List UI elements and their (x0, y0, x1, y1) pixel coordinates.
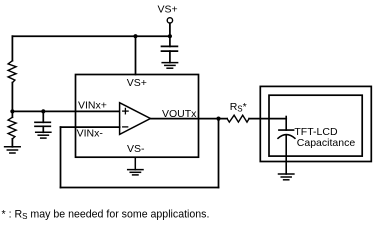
ground under C2 (162, 63, 177, 69)
junction cap tap (41, 109, 45, 113)
op-amp U1 triangle (120, 103, 151, 135)
resistor R1 (8, 61, 16, 83)
resistor R2 (8, 117, 16, 139)
wire terminal to top rail (169, 23, 171, 36)
ground under C1 (36, 132, 51, 138)
wire VINx- input (61, 126, 120, 128)
junction output node (216, 117, 220, 121)
junction VS+ pin tap (133, 34, 137, 38)
TFT-LCD outer box (260, 86, 371, 161)
capacitor C2 (VS+ decoupling) (162, 36, 178, 62)
wire top horizontal (12, 35, 170, 37)
junction terminal node (168, 34, 172, 38)
wire left rail lower (11, 83, 13, 118)
wire VS+ supply drop (135, 36, 137, 74)
ground VS- (128, 157, 143, 175)
wire feedback bottom (61, 187, 219, 189)
svg-text:VS+: VS+ (158, 4, 178, 16)
svg-text:VS-: VS- (127, 143, 145, 155)
svg-text:VINx+: VINx+ (78, 99, 107, 111)
TFT-LCD inner box (269, 95, 362, 156)
svg-text:Capacitance: Capacitance (297, 137, 356, 149)
junction input node (10, 109, 14, 113)
terminal VS+ (167, 18, 172, 23)
ground under R2 (5, 147, 21, 153)
wire R2 to ground (11, 139, 13, 147)
wire VOUTx output (150, 118, 227, 120)
wire feedback right vertical (218, 119, 220, 188)
svg-text:VINx-: VINx- (77, 128, 104, 140)
capacitor TFT-LCD (278, 117, 295, 175)
wire left rail upper (11, 36, 13, 61)
op-amp plus input mark (123, 108, 128, 113)
wire VINx+ (12, 110, 119, 112)
svg-text:* : RS may be needed for some: * : RS may be needed for some applicatio… (2, 209, 210, 222)
op-amp U1 box (76, 75, 199, 158)
ground TFT load (279, 174, 294, 180)
svg-text:VS+: VS+ (127, 77, 147, 89)
wire feedback left vertical (60, 127, 62, 187)
resistor RS (227, 115, 249, 122)
wire RS to load (249, 118, 286, 120)
capacitor C1 (35, 111, 50, 132)
op-amp minus input mark (123, 126, 128, 128)
